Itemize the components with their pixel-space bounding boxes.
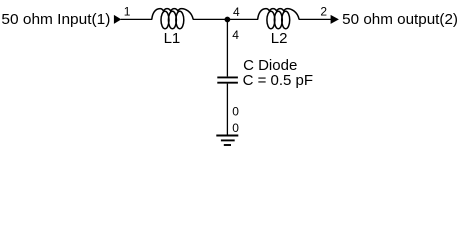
svg-text:4: 4 (233, 5, 240, 19)
svg-text:1: 1 (124, 5, 131, 19)
svg-text:0: 0 (232, 105, 239, 119)
wire capacitor to ground (226, 84, 228, 136)
inductor L2 (258, 9, 299, 29)
inductor L1 (152, 9, 193, 29)
svg-text:C = 0.5 pF: C = 0.5 pF (243, 72, 313, 89)
port P2 arrow (331, 15, 339, 24)
capacitor C top plate (217, 76, 238, 78)
svg-text:2: 2 (320, 5, 327, 19)
capacitor C bottom plate (217, 82, 238, 84)
port P1 arrow (114, 15, 121, 24)
wire node 4 down to capacitor (226, 19, 228, 76)
node 4 junction (225, 17, 231, 23)
svg-text:L2: L2 (271, 30, 288, 47)
wire node 4 to L2 (228, 18, 259, 20)
wire port1 to L1 (121, 18, 152, 20)
svg-text:50 ohm Input(1): 50 ohm Input(1) (1, 11, 110, 28)
svg-text:4: 4 (232, 28, 239, 42)
svg-text:L1: L1 (164, 30, 181, 47)
ground symbol (216, 136, 238, 146)
wire L2 to port 2 (299, 18, 332, 20)
wire L1 to node 4 (193, 18, 228, 20)
svg-text:50 ohm output(2): 50 ohm output(2) (342, 11, 458, 28)
svg-text:0: 0 (232, 121, 239, 135)
